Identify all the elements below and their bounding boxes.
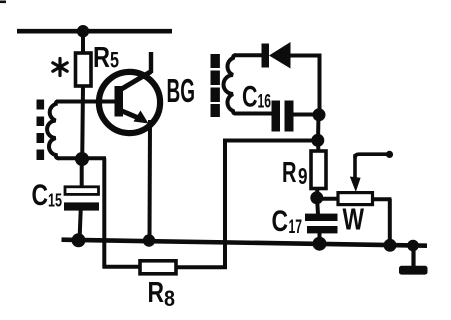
diode cathode bar xyxy=(262,44,270,68)
svg-text:R: R xyxy=(282,157,297,189)
svg-text:8: 8 xyxy=(164,286,175,311)
wire: coil bottom lead xyxy=(58,156,106,160)
capacitor C15 bottom plate (solid) xyxy=(64,202,99,210)
transformer core dashes (left) xyxy=(37,100,45,161)
wire: C16 right lead xyxy=(293,113,319,117)
junction dot: coil bottom / C15 xyxy=(75,152,89,166)
wire: W down to rail xyxy=(388,199,392,246)
svg-text:C: C xyxy=(272,205,289,238)
ground bar xyxy=(399,266,428,275)
wire: riser down to C16 node xyxy=(318,56,322,116)
wire: R9 bottom lead xyxy=(315,188,320,198)
wire: R5 bottom lead down to coil junction xyxy=(80,86,85,160)
wire: W right lead xyxy=(372,197,392,201)
scan artifact top-left xyxy=(0,1,6,4)
wire: node to potentiometer W xyxy=(317,197,337,201)
capacitor C17 top plate xyxy=(305,214,338,221)
svg-text:5: 5 xyxy=(110,48,119,73)
wire: coil top to diode xyxy=(234,53,263,57)
wire: R8 left lead xyxy=(103,265,141,269)
capacitor C17 bottom plate xyxy=(307,226,338,233)
wire: junction down to C15 xyxy=(80,159,84,188)
junction dot: emitter / rail xyxy=(143,234,155,246)
junction dot: C15 / rail xyxy=(72,233,86,247)
svg-text:W: W xyxy=(343,202,365,237)
wire: feedback riser from R8 xyxy=(223,141,227,270)
transistor base bar xyxy=(115,86,124,117)
detector coil (right transformer winding) xyxy=(224,55,237,113)
svg-text:17: 17 xyxy=(289,216,303,238)
transistor BG circle xyxy=(99,72,160,133)
wire: feedback horizontal to R9 top node xyxy=(223,139,318,143)
svg-text:16: 16 xyxy=(258,92,272,113)
svg-text:R: R xyxy=(93,42,110,74)
wiper lead horizontal xyxy=(355,154,388,158)
junction dot: C17 / rail xyxy=(313,237,327,251)
wire: coil bottom to C16 xyxy=(234,112,272,116)
diode body (triangle pointing left) xyxy=(269,42,291,69)
wire: top supply rail xyxy=(17,29,172,34)
resistor R9 xyxy=(311,151,326,189)
wire: node down to R9 top node xyxy=(316,115,321,141)
oscillator coil (left transformer winding) xyxy=(47,102,59,159)
svg-text:R: R xyxy=(148,277,165,309)
junction dot: W / rail xyxy=(384,239,397,252)
capacitor C16 right plate xyxy=(285,101,294,132)
asterisk marking xyxy=(53,59,67,76)
capacitor C16 left plate xyxy=(272,101,281,132)
wire: C15 to ground rail xyxy=(80,210,81,241)
wire: R8 right lead xyxy=(176,265,227,269)
potentiometer W body xyxy=(338,193,373,205)
wire: emitter down to rail xyxy=(148,120,153,241)
capacitor C15 top plate (hollow) xyxy=(65,187,99,195)
transistor emitter line xyxy=(119,110,143,120)
potentiometer wiper arrow xyxy=(353,154,357,178)
transistor emitter arrow xyxy=(134,111,149,124)
svg-text:15: 15 xyxy=(48,190,62,211)
ground stub xyxy=(411,246,415,268)
svg-text:9: 9 xyxy=(298,163,308,189)
svg-text:C: C xyxy=(32,179,49,212)
transformer core dashes (right) xyxy=(211,54,220,117)
wire: collector stub xyxy=(149,52,153,73)
resistor R5 xyxy=(76,53,92,86)
junction dot: R9 top / feedback xyxy=(311,134,324,147)
wire: C17 bottom stub xyxy=(318,233,322,244)
wire: R5 top lead xyxy=(81,31,85,54)
junction dot: C16 / riser xyxy=(313,108,326,121)
svg-text:BG: BG xyxy=(167,72,196,109)
ground rail (bottom) xyxy=(62,240,428,246)
wire: coil junction to R8 branch xyxy=(102,158,106,268)
wire: diode to riser xyxy=(290,54,322,58)
junction dot: R9 / C17 / W xyxy=(310,191,323,204)
wire: base lead / coil top lead xyxy=(56,100,116,104)
transistor collector line xyxy=(119,72,151,91)
wire: C17 top stub xyxy=(317,198,318,214)
svg-text:C: C xyxy=(242,81,258,114)
junction dot: rail / ground stub xyxy=(407,240,419,252)
resistor R8 xyxy=(140,261,176,274)
wire: to R9 xyxy=(316,140,320,152)
junction dot: top rail / R5 xyxy=(77,25,89,37)
